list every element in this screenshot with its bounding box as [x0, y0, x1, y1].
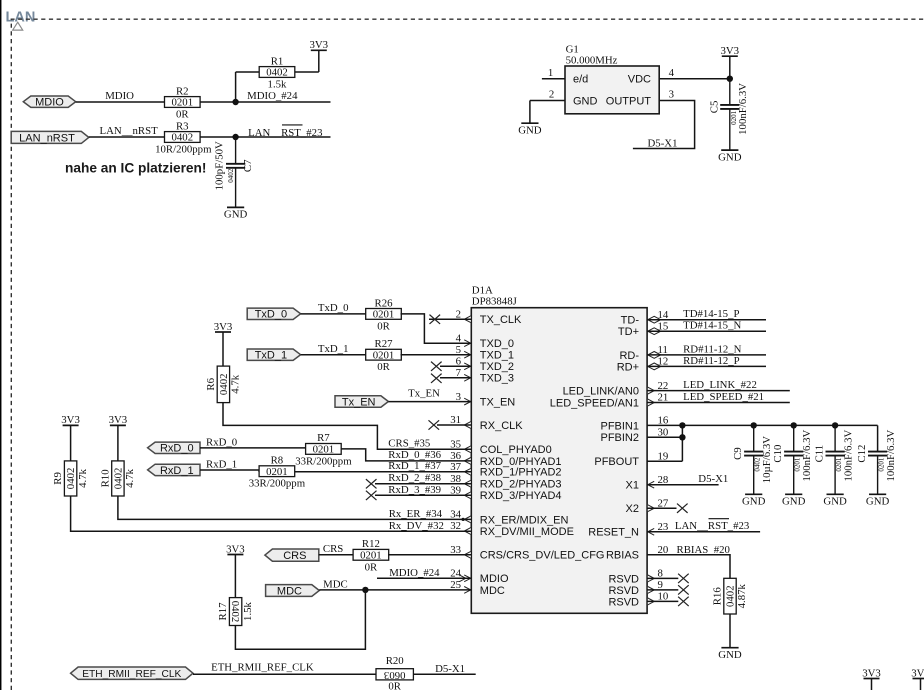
wire R16 to ground [729, 614, 731, 648]
IC pin 33 CRS/CRS_DV/LED_CFG [450, 544, 604, 562]
svg-text:LED_SPEED/AN1: LED_SPEED/AN1 [550, 397, 639, 409]
svg-text:3V3: 3V3 [309, 39, 328, 51]
IC pin 32 RX_DV/MII_MODE [450, 520, 574, 538]
resistor R7 [295, 432, 352, 467]
port Tx_EN [335, 396, 388, 409]
note nahe an IC platzieren! [65, 161, 206, 176]
net label D5-X1 at X1 [698, 473, 728, 485]
svg-text:GND: GND [782, 496, 806, 508]
svg-text:TxD_0: TxD_0 [318, 302, 349, 314]
IC pin 35 COL_PHYAD0 [450, 439, 552, 457]
net label MDIO [105, 90, 134, 102]
svg-text:0603: 0603 [384, 669, 406, 681]
svg-text:C10: C10 [772, 445, 784, 463]
no-connect X on pin 39 [366, 491, 471, 500]
svg-text:0402: 0402 [113, 468, 125, 490]
svg-text:TD#14-15_P: TD#14-15_P [683, 308, 739, 320]
svg-text:0402: 0402 [229, 601, 241, 623]
wire Tx_EN to pin 3 [388, 401, 471, 403]
resistor R26 [366, 297, 402, 332]
wire MDC to pin 25 [319, 589, 471, 591]
net label RxD_2_#38 [388, 472, 441, 484]
svg-text:3V3: 3V3 [862, 667, 881, 679]
resistor R17 [217, 598, 254, 626]
svg-text:MDIO: MDIO [35, 97, 64, 109]
svg-text:R20: R20 [386, 655, 404, 667]
net label MDIO_#24 [247, 90, 298, 102]
IC D1A designator [472, 285, 517, 308]
port RxD_0 [148, 442, 200, 455]
svg-text:2: 2 [549, 89, 554, 101]
IC pin 36 RXD_0/PHYAD1 [450, 450, 561, 468]
svg-text:LAN__nRST: LAN__nRST [100, 125, 159, 137]
svg-text:GND: GND [224, 209, 248, 221]
svg-text:0402: 0402 [725, 585, 737, 607]
net label LAN__nRST [100, 125, 159, 137]
no-connect X on pin 31 [429, 420, 472, 429]
oscillator G1 body [565, 66, 659, 114]
wire R27 to pin 5 [401, 354, 472, 356]
svg-text:50.000MHz: 50.000MHz [566, 54, 618, 66]
svg-text:R6: R6 [205, 377, 217, 390]
svg-text:LED_LINK/AN0: LED_LINK/AN0 [563, 386, 639, 398]
port TxD_1 [247, 349, 300, 362]
svg-text:PFBIN1: PFBIN1 [600, 420, 639, 432]
svg-text:LAN__RST_#23: LAN__RST_#23 [675, 520, 749, 532]
IC pin 8 RSVD [608, 568, 662, 586]
svg-text:3V3: 3V3 [61, 414, 80, 426]
capacitor C5 [708, 79, 749, 164]
svg-text:0201: 0201 [373, 309, 395, 321]
sheet revision triangle [13, 22, 23, 30]
no-connect X on pin 8 [647, 574, 689, 583]
svg-text:1.5k: 1.5k [242, 601, 254, 620]
svg-text:RxD_3_#39: RxD_3_#39 [388, 484, 441, 496]
svg-text:RxD_1: RxD_1 [160, 465, 194, 477]
svg-text:RESET_N: RESET_N [588, 527, 639, 539]
svg-text:100nF/6.3V: 100nF/6.3V [801, 429, 813, 481]
resistor R10 [100, 461, 137, 496]
svg-text:TX_CLK: TX_CLK [480, 314, 522, 326]
svg-text:0R: 0R [176, 108, 189, 120]
IC pin 24 MDIO [450, 568, 509, 586]
svg-text:OUTPUT: OUTPUT [606, 95, 652, 107]
wire PFBOUT up to PFBIN2 [647, 437, 682, 461]
IC pin 12 RD+ [617, 356, 669, 374]
wire RESET_N [647, 531, 760, 533]
wire R8 to pin 37 [295, 471, 472, 473]
svg-text:C12: C12 [856, 445, 868, 463]
svg-text:4.7k: 4.7k [124, 468, 136, 487]
net label RD#11-12_N [683, 343, 742, 355]
svg-text:C7: C7 [242, 159, 254, 172]
svg-text:RX_DV/MII_MODE: RX_DV/MII_MODE [480, 526, 574, 538]
wire LAN_nRST port to R3 [89, 136, 165, 138]
IC pin 31 RX_CLK [450, 414, 523, 432]
svg-text:MDC: MDC [480, 585, 505, 597]
svg-text:100nF/6.3V: 100nF/6.3V [737, 83, 749, 135]
IC pin 3 TX_EN [456, 391, 516, 409]
svg-text:PFBOUT: PFBOUT [594, 456, 639, 468]
svg-text:C5: C5 [708, 101, 720, 114]
wire RxD_0 to R7 [200, 447, 306, 449]
no-connect X on pin 38 [366, 479, 471, 488]
IC pin 25 MDC [450, 579, 505, 597]
resistor R3 [155, 121, 212, 156]
svg-text:GND: GND [823, 496, 847, 508]
net label MDIO_#24 stub [377, 567, 471, 579]
svg-text:MDIO: MDIO [105, 90, 134, 102]
svg-text:MDC: MDC [277, 585, 302, 597]
oscillator G1 designator [566, 44, 618, 67]
no-connect X on pin 10 [647, 597, 689, 606]
svg-text:MDIO_#24: MDIO_#24 [247, 90, 298, 102]
net label MDC [323, 578, 348, 590]
wire R26 to pin 4 [401, 314, 472, 343]
sheet title LAN [6, 10, 36, 26]
svg-text:0R: 0R [365, 562, 378, 574]
power 3V3 bottom right [911, 667, 924, 690]
net label D5-X1 bottom [435, 663, 465, 675]
port MDC [266, 585, 320, 598]
net label RxD_3_#39 [388, 484, 441, 496]
svg-text:GND: GND [518, 124, 542, 136]
svg-text:100nF/6.3V: 100nF/6.3V [842, 429, 854, 481]
wire PFBIN1 rail [647, 424, 878, 426]
G1 pin 4 VDC [628, 67, 730, 86]
net label RxD_0 [206, 437, 237, 449]
IC pin 11 RD- [619, 344, 667, 362]
svg-text:0201: 0201 [313, 444, 335, 456]
sheet left edge line [0, 0, 2, 690]
resistor R27 [366, 338, 402, 373]
svg-text:LED_LINK_#22: LED_LINK_#22 [683, 379, 757, 391]
svg-text:GND: GND [573, 95, 598, 107]
svg-text:RD#11-12_P: RD#11-12_P [683, 355, 740, 367]
ground at G1 pin 2 [518, 101, 542, 137]
svg-text:RXD_1/PHYAD2: RXD_1/PHYAD2 [480, 467, 562, 479]
wire R1 to 3V3 [295, 50, 319, 72]
svg-text:RxD_0: RxD_0 [206, 437, 237, 449]
svg-text:CRS_#35: CRS_#35 [388, 437, 430, 449]
net label ETH_RMII_REF_CLK [211, 662, 314, 674]
svg-text:0R: 0R [377, 320, 390, 332]
svg-text:32: 32 [450, 520, 461, 532]
junction PFBIN1 [679, 422, 685, 428]
svg-text:D5-X1: D5-X1 [698, 473, 728, 485]
wire RBIAS to R16 [647, 555, 730, 579]
svg-text:Tx_EN: Tx_EN [342, 396, 376, 408]
net label LAN__RST_#23 right [675, 519, 749, 533]
svg-text:MDIO: MDIO [480, 573, 509, 585]
IC pin 27 X2 [626, 497, 669, 515]
junction on LAN__RST net [232, 134, 238, 140]
IC pin 10 RSVD [608, 591, 668, 609]
svg-text:TXD_3: TXD_3 [480, 373, 514, 385]
svg-text:0R: 0R [377, 361, 390, 373]
wire ETH_RMII_REF_CLK to R20 [193, 673, 376, 675]
svg-text:R1: R1 [271, 55, 284, 67]
IC pin 39 RXD_3/PHYAD4 [450, 485, 561, 503]
IC pin 20 RBIAS [606, 544, 668, 562]
wire TD#14-15_P [647, 319, 766, 321]
capacitor C12 [856, 429, 897, 507]
net label TD#14-15_N [683, 320, 741, 332]
capacitor C11 [814, 425, 855, 507]
net label Rx_ER_#34 [389, 508, 443, 520]
svg-text:3V3: 3V3 [911, 667, 924, 679]
wire R12 to pin 33 [388, 554, 471, 556]
svg-text:RSVD: RSVD [608, 596, 639, 608]
wire RD#11-12_P [647, 365, 766, 367]
svg-text:3V3: 3V3 [720, 45, 739, 57]
svg-text:CRS: CRS [283, 550, 306, 562]
wire X1 to D5-X1 [647, 484, 719, 486]
svg-text:RxD_1_#37: RxD_1_#37 [388, 460, 441, 472]
resistor R9 [52, 461, 89, 496]
resistor R6 [205, 366, 242, 403]
svg-text:0402: 0402 [172, 132, 194, 144]
svg-text:TD#14-15_N: TD#14-15_N [683, 320, 741, 332]
wire R2 to MDIO_#24 net [200, 101, 330, 103]
net label Rx_DV_#32 [389, 520, 444, 532]
IC pin 5 TXD_1 [456, 344, 514, 362]
svg-text:ETH_RMII_REF_CLK: ETH_RMII_REF_CLK [82, 669, 181, 680]
svg-text:X1: X1 [626, 480, 639, 492]
svg-text:R8: R8 [271, 455, 284, 467]
port ETH_RMII_REF_CLK [71, 667, 193, 680]
G1 pin 2 GND [530, 89, 598, 108]
net label CRS [323, 543, 343, 555]
net label RxD_1 [206, 459, 237, 471]
svg-text:4.87k: 4.87k [736, 583, 748, 608]
wire CRS to R12 [319, 554, 354, 556]
net label TxD_0 [318, 302, 349, 314]
junction C11 [832, 422, 838, 428]
svg-text:LAN__RST_#23: LAN__RST_#23 [248, 127, 322, 139]
junction C9 [751, 422, 757, 428]
svg-text:e/d: e/d [573, 74, 588, 86]
svg-text:ETH_RMII_REF_CLK: ETH_RMII_REF_CLK [211, 662, 314, 674]
power 3V3 at R17 [226, 543, 245, 597]
IC pin 38 RXD_2/PHYAD3 [450, 473, 561, 491]
IC pin 23 RESET_N [588, 521, 668, 539]
svg-text:LAN: LAN [6, 10, 36, 26]
svg-text:LAN_nRST: LAN_nRST [19, 132, 75, 144]
svg-text:1.5k: 1.5k [268, 79, 287, 91]
ground below R16 [718, 648, 742, 661]
IC pin 14 TD- [621, 309, 669, 327]
svg-text:TXD_0: TXD_0 [480, 338, 514, 350]
svg-text:4.7k: 4.7k [77, 468, 89, 487]
wire R9 to pin 32 [71, 496, 472, 531]
svg-text:0402: 0402 [65, 468, 77, 490]
resistor R2 [165, 86, 201, 121]
svg-text:33R/200ppm: 33R/200ppm [295, 455, 352, 467]
svg-text:RX_CLK: RX_CLK [480, 420, 523, 432]
IC pin 16 PFBIN1 [600, 415, 668, 433]
junction on MDIO net [232, 99, 238, 105]
svg-text:100nF/6.3V: 100nF/6.3V [885, 429, 897, 481]
wire RxD_1 to R8 [200, 470, 259, 472]
svg-text:100pF/50V: 100pF/50V [214, 141, 226, 190]
svg-text:Tx_EN: Tx_EN [408, 387, 440, 399]
svg-text:LED_SPEED_#21: LED_SPEED_#21 [683, 391, 764, 403]
svg-text:C9: C9 [732, 447, 744, 460]
wire junction up to R1 [236, 72, 260, 102]
svg-text:nahe an IC platzieren!: nahe an IC platzieren! [65, 161, 206, 176]
IC pin 2 TX_CLK [456, 308, 522, 326]
IC pin 15 TD+ [618, 320, 668, 338]
capacitor C9 [732, 425, 773, 507]
IC pin 4 TXD_0 [456, 332, 514, 350]
power 3V3 above R1 [309, 39, 328, 51]
svg-text:RXD_2/PHYAD3: RXD_2/PHYAD3 [480, 479, 562, 491]
wire TxD_1 to R27 [301, 354, 367, 356]
IC pin 7 TXD_3 [456, 367, 514, 385]
port MDIO [23, 96, 75, 109]
IC pin 9 RSVD [608, 579, 662, 597]
svg-text:10µF/6.3V: 10µF/6.3V [761, 436, 773, 484]
no-connect X on pin 2 [429, 315, 471, 324]
power 3V3 at R6 [214, 321, 233, 366]
wire R17 to MDC junction [235, 590, 365, 649]
svg-text:MDIO_#24: MDIO_#24 [389, 567, 440, 579]
svg-text:3: 3 [669, 89, 674, 101]
svg-text:GND: GND [718, 151, 742, 163]
svg-text:RXD_3/PHYAD4: RXD_3/PHYAD4 [480, 490, 562, 502]
svg-text:RxD_0: RxD_0 [160, 443, 194, 455]
svg-text:VDC: VDC [628, 74, 651, 86]
wire RD#11-12_N [647, 354, 766, 356]
svg-text:0201: 0201 [360, 549, 382, 561]
wire TxD_0 to R26 [301, 313, 367, 315]
svg-text:CRS: CRS [323, 543, 343, 555]
svg-text:MDC: MDC [323, 578, 348, 590]
IC pin 22 LED_LINK/AN0 [563, 380, 669, 398]
svg-text:RX_ER/MDIX_EN: RX_ER/MDIX_EN [480, 514, 569, 526]
svg-text:3V3: 3V3 [226, 543, 245, 555]
svg-text:DP83848J: DP83848J [472, 295, 517, 307]
svg-text:RxD_2_#38: RxD_2_#38 [388, 472, 441, 484]
net label RxD_1_#37 [388, 460, 441, 472]
svg-text:RSVD: RSVD [608, 585, 639, 597]
resistor R16 [712, 578, 749, 614]
svg-text:TD+: TD+ [618, 326, 639, 338]
port CRS [265, 549, 319, 562]
svg-text:PFBIN2: PFBIN2 [600, 432, 639, 444]
net label LED_SPEED_#21 [683, 391, 764, 403]
svg-text:RD-: RD- [619, 350, 639, 362]
net label D5-X1 at G1 [648, 137, 678, 149]
svg-text:TxD_0: TxD_0 [255, 309, 287, 321]
svg-text:TxD_1: TxD_1 [255, 350, 287, 362]
svg-text:R7: R7 [317, 432, 330, 444]
no-connect X on pin 9 [647, 585, 689, 594]
svg-text:D5-X1: D5-X1 [435, 663, 465, 675]
IC pin 34 RX_ER/MDIX_EN [450, 509, 568, 527]
resistor R12 [353, 538, 389, 573]
power 3V3 at R10 [109, 414, 128, 461]
svg-text:R9: R9 [52, 472, 64, 485]
no-connect X on pin 7 [431, 374, 471, 383]
svg-text:TXD_2: TXD_2 [480, 361, 514, 373]
port RxD_1 [148, 464, 200, 477]
capacitor C10 [772, 425, 813, 507]
svg-text:D5-X1: D5-X1 [648, 137, 678, 149]
IC pin 30 PFBIN2 [600, 427, 668, 445]
net label LAN__RST_#23 [248, 125, 322, 139]
svg-text:0201: 0201 [373, 349, 395, 361]
svg-text:RxD_1: RxD_1 [206, 459, 237, 471]
svg-text:RSVD: RSVD [608, 573, 639, 585]
no-connect X on pin 6 [431, 362, 471, 371]
resistor R8 [249, 455, 306, 490]
resistor R1 [259, 55, 295, 90]
G1 pin 3 OUTPUT [606, 89, 695, 149]
IC pin 37 RXD_1/PHYAD2 [450, 461, 561, 479]
no-connect X on pin 27 [647, 504, 688, 513]
svg-text:0402: 0402 [218, 374, 230, 396]
junction at G1 VDC [727, 76, 733, 82]
net label CRS_#35 [388, 437, 430, 449]
IC pin 21 LED_SPEED/AN1 [550, 392, 669, 410]
power 3V3 at G1 [720, 45, 739, 79]
wire R10 to pin 34 [118, 496, 471, 519]
svg-text:33R/200ppm: 33R/200ppm [249, 478, 306, 490]
net label Tx_EN [408, 387, 440, 399]
svg-text:R17: R17 [217, 602, 229, 621]
svg-text:0201: 0201 [172, 97, 194, 109]
junction C10 [791, 422, 797, 428]
svg-text:R12: R12 [362, 538, 380, 550]
wire MDIO port to R2 [76, 101, 165, 103]
svg-text:TxD_1: TxD_1 [318, 343, 349, 355]
net label RxD_0_#36 [388, 449, 441, 461]
svg-text:3V3: 3V3 [214, 321, 233, 333]
resistor R20 [376, 655, 413, 690]
port TxD_0 [247, 308, 300, 321]
junction on MDC net [362, 587, 368, 593]
wire R3 to LAN__RST_#23 net [200, 136, 330, 138]
svg-text:C11: C11 [814, 445, 826, 463]
net label RBIAS_#20 [677, 544, 730, 556]
svg-text:0R: 0R [388, 680, 401, 690]
svg-text:Rx_DV_#32: Rx_DV_#32 [389, 520, 444, 532]
power 3V3 bottom left [862, 667, 881, 690]
svg-text:RD+: RD+ [617, 361, 639, 373]
svg-text:X2: X2 [626, 503, 639, 515]
net label TxD_1 [318, 343, 349, 355]
net label RD#11-12_P [683, 355, 740, 367]
svg-text:0402: 0402 [266, 67, 288, 79]
svg-text:3V3: 3V3 [109, 414, 128, 426]
IC pin 28 X1 [626, 474, 669, 492]
G1 pin 1 e/d [542, 67, 588, 86]
net label TD#14-15_P [683, 308, 739, 320]
wire R6 to pin 35 [223, 403, 471, 450]
net label LED_LINK_#22 [683, 379, 757, 391]
wire rail corner to C12 [877, 425, 879, 451]
svg-text:0402: 0402 [227, 168, 235, 183]
svg-text:GND: GND [866, 496, 890, 508]
svg-text:TD-: TD- [621, 315, 640, 327]
wire R7 to pin 36 [341, 449, 472, 461]
wire TD#14-15_N [647, 330, 766, 332]
svg-text:TXD_1: TXD_1 [480, 350, 514, 362]
power 3V3 at R9 [61, 414, 80, 461]
svg-text:TX_EN: TX_EN [480, 397, 516, 409]
